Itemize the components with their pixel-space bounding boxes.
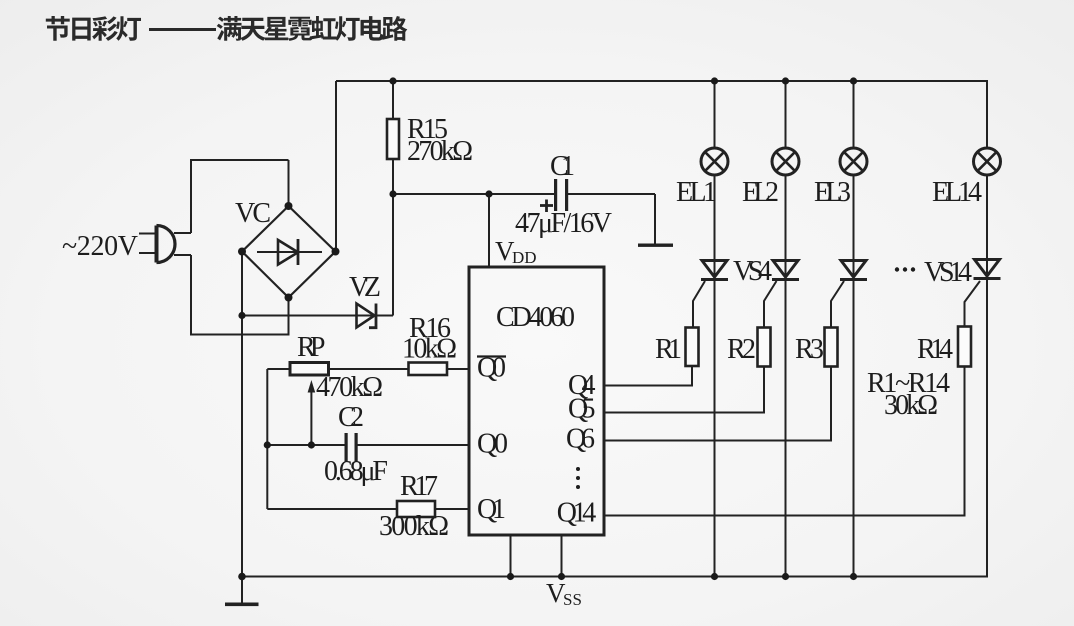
svg-text:C2: C2 [338,402,364,433]
svg-text:R1: R1 [655,334,682,365]
svg-text:R17: R17 [400,471,438,502]
svg-text:VS4: VS4 [733,256,772,287]
svg-text:C1: C1 [550,151,575,182]
svg-text:R3: R3 [795,334,824,365]
svg-text:VC: VC [235,198,271,229]
svg-text:SS: SS [563,590,582,609]
svg-text:Q1: Q1 [477,494,506,525]
svg-text:~220V: ~220V [62,231,138,262]
svg-text:30kΩ: 30kΩ [884,390,938,421]
svg-text:300kΩ: 300kΩ [379,511,449,542]
svg-text:EL2: EL2 [742,177,779,208]
svg-text:470kΩ: 470kΩ [316,372,383,403]
svg-text:EL1: EL1 [676,177,717,208]
svg-text:Q14: Q14 [557,498,597,529]
svg-text:Q0: Q0 [477,429,508,460]
svg-text:VZ: VZ [349,272,381,303]
svg-text:R14: R14 [917,334,953,365]
svg-text:EL3: EL3 [814,177,851,208]
svg-text:DD: DD [512,248,537,267]
svg-text:VS14: VS14 [924,257,972,288]
svg-text:47μF/16V: 47μF/16V [515,208,612,239]
svg-text:EL14: EL14 [932,177,982,208]
svg-text:CD4060: CD4060 [496,302,575,333]
svg-text:Q6: Q6 [566,424,595,455]
svg-text:R2: R2 [727,334,756,365]
svg-text:270kΩ: 270kΩ [407,136,473,167]
svg-text:0.68μF: 0.68μF [324,456,388,487]
svg-text:RP: RP [297,332,326,363]
svg-text:10kΩ: 10kΩ [402,334,457,365]
svg-text:Q5: Q5 [568,394,596,425]
